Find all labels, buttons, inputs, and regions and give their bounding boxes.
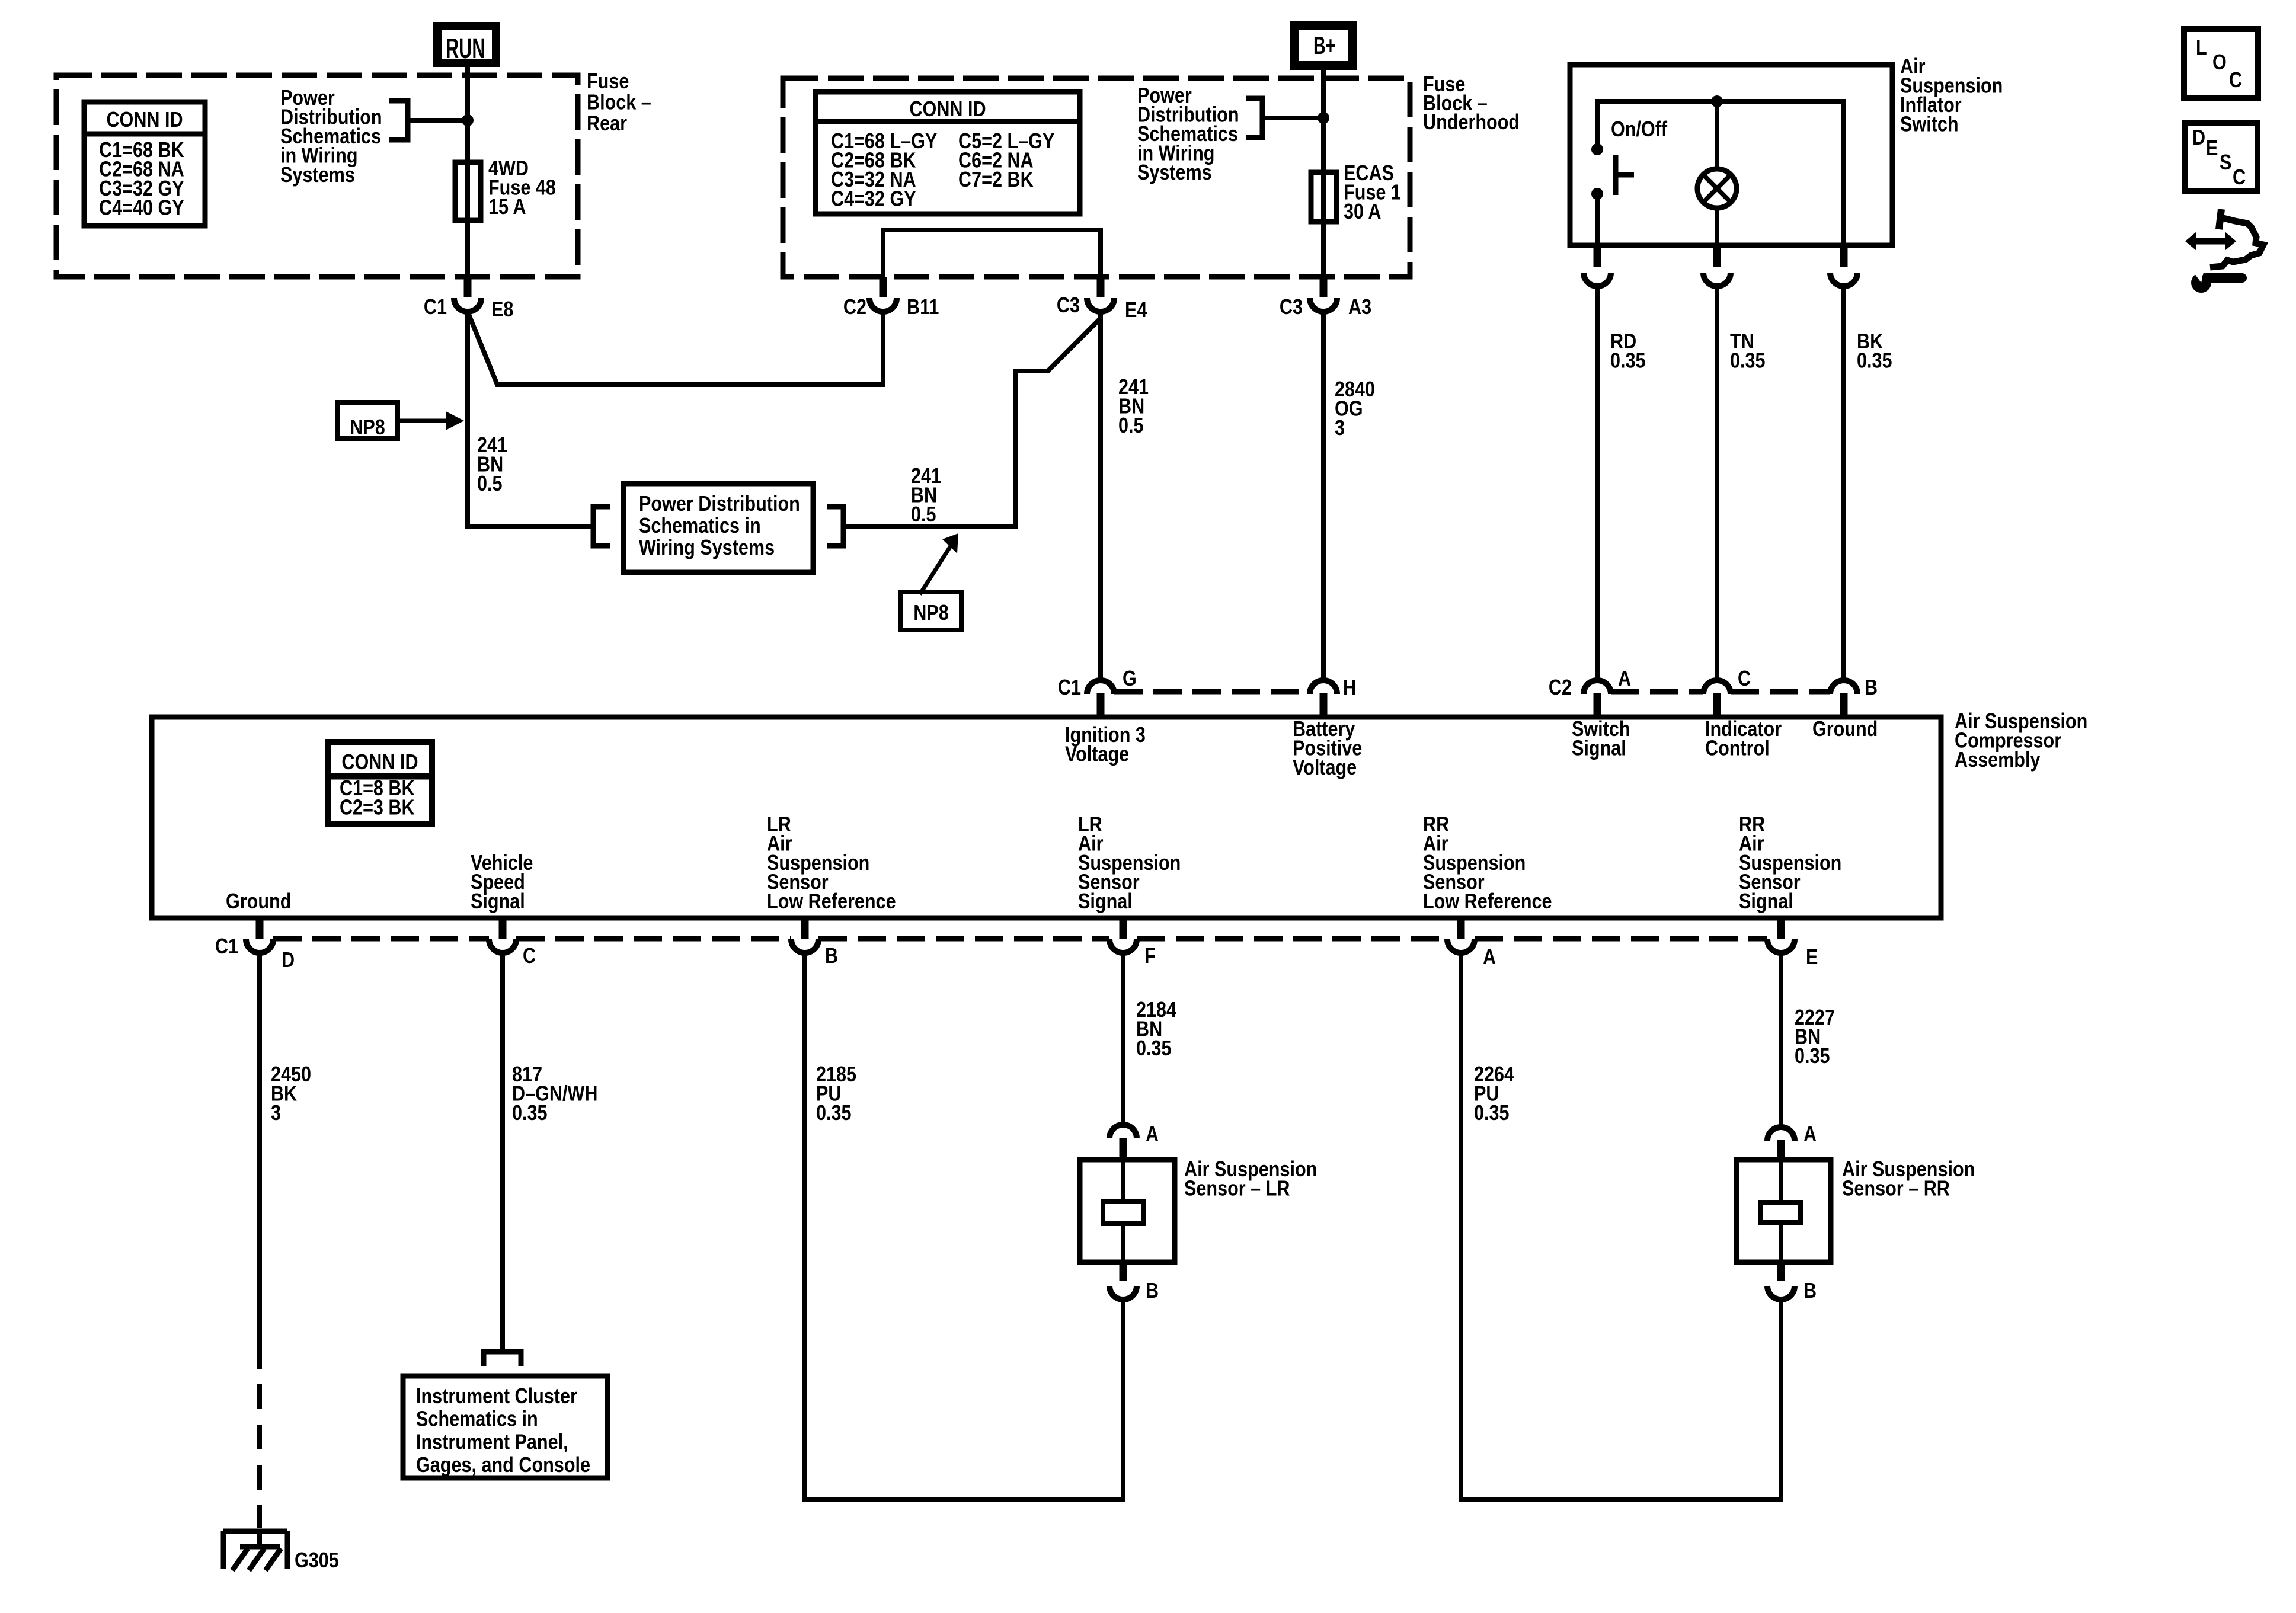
svg-text:Power Distribution: Power Distribution [639, 492, 800, 516]
svg-text:B+: B+ [1313, 31, 1335, 59]
box: power distribution schematics in wiring systems [623, 484, 813, 572]
wire 241 BN: box to connector C3/E4 [843, 319, 1100, 526]
svg-text:A3: A3 [1348, 296, 1371, 319]
wire 817 D-GN/WH: pin C to instrument cluster [500, 953, 505, 1349]
svg-text:C: C [2229, 69, 2242, 92]
svg-text:0.35: 0.35 [1795, 1045, 1830, 1068]
svg-text:C2: C2 [843, 296, 866, 319]
svg-text:0.35: 0.35 [816, 1102, 852, 1125]
sensor RR connector A dome [1767, 1127, 1795, 1141]
LOC reference box [2184, 29, 2258, 98]
svg-text:3: 3 [1335, 417, 1345, 440]
svg-text:0.5: 0.5 [911, 503, 936, 527]
svg-text:B: B [825, 945, 838, 968]
svg-text:0.35: 0.35 [1857, 349, 1892, 373]
junction node on RUN feed [462, 114, 474, 126]
svg-text:Instrument Cluster: Instrument Cluster [416, 1385, 577, 1409]
box: instrument cluster schematics [403, 1376, 607, 1478]
wire BK 0.35: switch to compressor pin B [1841, 286, 1846, 680]
fuse block - rear dashed outline [56, 75, 578, 277]
svg-text:30 A: 30 A [1344, 200, 1381, 224]
svg-text:C1: C1 [1058, 676, 1081, 700]
switch on/off upper contact [1591, 143, 1603, 155]
svg-text:D: D [282, 949, 295, 972]
svg-text:Sensor – LR: Sensor – LR [1184, 1177, 1290, 1201]
switch output connector at x=2695 [1594, 245, 1601, 267]
terminal RUN [433, 22, 500, 67]
svg-text:C4=32 GY: C4=32 GY [831, 187, 916, 211]
wire 2185 PU: pin B loop to sensor LR [805, 953, 1123, 1499]
connector C3/E4 stub [1097, 277, 1105, 297]
internal wire: switch top bus [1597, 101, 1844, 245]
NP8 callout box 2 [901, 592, 961, 630]
svg-text:C7=2 BK: C7=2 BK [958, 168, 1034, 192]
switch output connector at x=3111 [1840, 245, 1848, 267]
fuse block - underhood dashed outline [783, 78, 1410, 277]
svg-text:Rear: Rear [587, 112, 627, 136]
CONN ID table (fuse block underhood) [816, 92, 1080, 214]
navigation icon: harness outline [2219, 209, 2221, 229]
DESC reference box [2185, 123, 2257, 191]
svg-text:Signal: Signal [1739, 890, 1793, 914]
svg-text:Underhood: Underhood [1423, 111, 1520, 135]
svg-text:Schematics in: Schematics in [639, 514, 761, 538]
svg-text:Ground: Ground [1812, 718, 1878, 741]
svg-text:Signal: Signal [471, 890, 525, 914]
svg-text:Low Reference: Low Reference [1423, 890, 1552, 914]
compressor bottom pin A [1457, 919, 1465, 939]
compressor top pin C [1703, 680, 1731, 694]
text: B+ [1313, 31, 1335, 59]
wire: note bracket to RUN wire [408, 118, 468, 123]
wire 241 BN: E8 to B11 [468, 312, 883, 385]
svg-text:Assembly: Assembly [1955, 748, 2041, 772]
svg-text:Voltage: Voltage [1293, 756, 1357, 780]
svg-text:B: B [1865, 676, 1878, 700]
compressor bottom pin C [499, 919, 507, 939]
svg-text:A: A [1146, 1123, 1159, 1147]
svg-text:B11: B11 [907, 296, 939, 319]
svg-text:CONN ID: CONN ID [106, 108, 183, 132]
svg-text:G: G [1123, 667, 1137, 691]
svg-text:C3: C3 [1057, 294, 1080, 318]
bus wire between pins inside underhood block [883, 230, 1101, 277]
NP8 callout box 1 [338, 402, 398, 439]
wire: note bracket to B+ wire [1262, 116, 1323, 120]
air suspension sensor LR box [1080, 1160, 1175, 1262]
fuse ECAS 1 (30 A) [1311, 172, 1336, 222]
bracket for power distribution note (rear) [389, 101, 408, 140]
svg-text:G305: G305 [295, 1549, 339, 1573]
connector C1 dashed line (bottom) [273, 936, 489, 942]
svg-text:Block –: Block – [587, 91, 651, 114]
sensor RR connector B stub and cup [1777, 1262, 1785, 1281]
junction node on B+ feed [1318, 112, 1329, 124]
svg-text:C4=40 GY: C4=40 GY [99, 196, 184, 220]
svg-text:Sensor – RR: Sensor – RR [1842, 1177, 1950, 1201]
compressor bottom pin D [256, 919, 264, 939]
svg-text:Control: Control [1705, 737, 1770, 760]
switch on/off lower contact [1591, 188, 1603, 200]
sensor RR internal element [1761, 1202, 1801, 1222]
connector C1/E8 stub [464, 277, 472, 297]
svg-text:C: C [523, 945, 536, 968]
svg-text:C2: C2 [1549, 676, 1572, 700]
junction node at lamp branch [1711, 95, 1723, 107]
sensor LR connector A dome [1109, 1125, 1137, 1138]
svg-text:E: E [1806, 946, 1818, 969]
compressor top pin G [1087, 680, 1114, 694]
svg-text:0.35: 0.35 [1136, 1037, 1172, 1061]
svg-text:F: F [1144, 945, 1156, 968]
instrument cluster bracket [484, 1352, 521, 1366]
compressor bottom pin E [1777, 919, 1785, 939]
wire: lamp to box edge [1715, 208, 1719, 245]
connector C3/E4 cup [1087, 298, 1114, 312]
svg-text:0.5: 0.5 [477, 472, 503, 496]
svg-text:E4: E4 [1125, 299, 1147, 322]
svg-text:C1: C1 [424, 296, 447, 319]
CONN ID table (fuse block rear) [84, 102, 205, 226]
svg-text:O: O [2212, 51, 2227, 75]
bracket left of power distribution schematics box [593, 507, 610, 546]
svg-text:Gages, and Console: Gages, and Console [416, 1454, 590, 1477]
navigation icon: double arrow [2195, 238, 2227, 245]
wire 241 BN: E8 down to power distribution box [468, 312, 593, 526]
svg-text:Low Reference: Low Reference [767, 890, 896, 914]
svg-text:Systems: Systems [1137, 161, 1212, 185]
compressor top pin B [1830, 680, 1857, 694]
ground G305 [223, 1529, 287, 1534]
svg-text:Instrument Panel,: Instrument Panel, [416, 1430, 568, 1454]
wire: bus to indicator lamp [1715, 101, 1719, 169]
wire 2450 BK: pin D to ground [257, 953, 262, 1344]
svg-text:0.35: 0.35 [1610, 349, 1646, 373]
bracket right of power distribution schematics box [827, 507, 843, 546]
text: RUN [446, 33, 485, 65]
svg-text:C3: C3 [1280, 296, 1303, 319]
terminal B+ [1290, 21, 1357, 70]
indicator lamp [1697, 169, 1737, 208]
wire 241 BN: E4 down to compressor pin G [1098, 312, 1103, 680]
svg-text:B: B [1803, 1279, 1817, 1303]
svg-text:Fuse: Fuse [587, 70, 629, 94]
svg-text:S: S [2220, 151, 2231, 175]
air suspension inflator switch box [1570, 65, 1892, 245]
svg-text:C: C [1738, 667, 1751, 691]
svg-text:0.5: 0.5 [1118, 414, 1144, 438]
svg-text:0.35: 0.35 [512, 1102, 548, 1125]
svg-text:RUN: RUN [446, 33, 485, 65]
svg-text:D: D [2192, 126, 2205, 150]
connector C1/E8 cup [454, 298, 481, 312]
wire RD 0.35: switch to compressor pin A [1595, 286, 1600, 680]
svg-text:Signal: Signal [1078, 890, 1133, 914]
svg-text:NP8: NP8 [350, 416, 385, 440]
compressor bottom pin F [1120, 919, 1127, 939]
wire 2227 BN: pin E down to sensor RR [1779, 953, 1783, 1127]
svg-text:Signal: Signal [1572, 737, 1626, 760]
switch output connector at x=2897 [1713, 245, 1721, 267]
svg-text:L: L [2196, 36, 2207, 60]
compressor top pin H [1310, 680, 1337, 694]
svg-text:C1: C1 [215, 935, 238, 959]
svg-text:C2=3 BK: C2=3 BK [340, 796, 415, 820]
svg-text:Ground: Ground [226, 890, 291, 914]
connector C2 dashed line (top, A to B) [1611, 689, 1703, 695]
sensor LR connector B stub and cup [1120, 1262, 1127, 1281]
wire: RUN terminal down through fuse 48 [465, 67, 470, 277]
compressor bottom pin B [801, 919, 809, 939]
svg-text:Voltage: Voltage [1065, 743, 1129, 766]
svg-text:A: A [1483, 946, 1496, 969]
svg-text:On/Off: On/Off [1611, 118, 1668, 142]
svg-text:A: A [1803, 1123, 1817, 1147]
svg-text:CONN ID: CONN ID [341, 751, 418, 775]
svg-text:CONN ID: CONN ID [909, 98, 986, 121]
svg-text:Switch: Switch [1900, 113, 1959, 136]
svg-text:B: B [1146, 1279, 1159, 1303]
svg-text:E8: E8 [491, 298, 513, 322]
compressor top pin A [1584, 680, 1611, 694]
navigation icon: wrench [2191, 273, 2211, 293]
svg-text:NP8: NP8 [913, 601, 949, 625]
air suspension compressor assembly box [152, 717, 1941, 918]
svg-text:Wiring Systems: Wiring Systems [639, 536, 775, 560]
NP8 arrow 2 [920, 542, 953, 594]
connector C2/B11 cup [869, 298, 897, 312]
svg-text:Schematics in: Schematics in [416, 1407, 538, 1431]
wire 2184 BN: pin F down to sensor LR [1121, 953, 1125, 1125]
svg-text:0.35: 0.35 [1474, 1102, 1510, 1125]
bracket for power distribution note (underhood) [1246, 98, 1262, 137]
connector C3/A3 stub [1320, 277, 1328, 297]
wire 2264 PU: pin A loop to sensor RR [1461, 953, 1781, 1499]
wire: B+ down through ECAS fuse [1321, 70, 1326, 277]
svg-text:0.35: 0.35 [1730, 349, 1766, 373]
svg-text:3: 3 [271, 1102, 281, 1125]
svg-text:Systems: Systems [280, 164, 355, 187]
air suspension sensor RR box [1737, 1160, 1831, 1262]
fuse 48 (4WD 15 A) [455, 162, 481, 220]
connector C1 dashed line (top, G to H) [1114, 689, 1310, 695]
switch blade [1613, 155, 1619, 195]
wire: lower contact to box edge [1595, 194, 1600, 245]
NP8 arrow 1 [398, 419, 452, 423]
svg-text:E: E [2206, 137, 2218, 161]
svg-text:A: A [1618, 667, 1631, 691]
wire TN 0.35: switch to compressor pin C [1715, 286, 1719, 680]
svg-text:H: H [1343, 676, 1356, 700]
connector C2/B11 stub [880, 277, 887, 297]
svg-text:C: C [2233, 166, 2246, 190]
CONN ID table (compressor) [328, 742, 432, 824]
connector C3/A3 cup [1310, 298, 1337, 312]
wire 2840 OG: A3 down to compressor pin H [1321, 312, 1326, 680]
svg-text:15 A: 15 A [488, 196, 526, 219]
sensor LR internal element [1103, 1201, 1143, 1224]
